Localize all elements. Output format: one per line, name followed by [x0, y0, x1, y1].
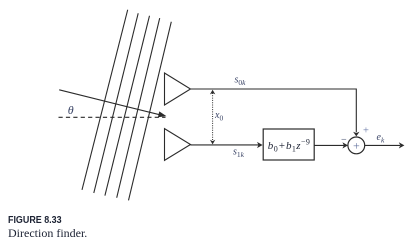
arrowhead into filter box: [257, 142, 263, 148]
wire: bottom rail s1k: [191, 144, 259, 146]
wire: box to summer: [314, 144, 344, 146]
caption text: [8, 226, 87, 241]
svg-text:+: +: [353, 139, 360, 153]
output arrowhead: [399, 142, 405, 148]
svg-text:x0: x0: [214, 110, 223, 123]
arrowhead down: [210, 140, 215, 145]
svg-text:−: −: [341, 134, 347, 145]
wavefront line 4: [117, 18, 160, 198]
summing junction circle: [348, 137, 365, 154]
wavefront line 3: [105, 16, 150, 196]
caption figure number: [8, 214, 62, 226]
incident ray arrowhead: [158, 111, 167, 117]
wire: top rail s0k: [191, 89, 357, 132]
arrowhead into summer top: [353, 132, 359, 137]
incident ray wire: [59, 90, 159, 115]
arrowhead up: [210, 90, 215, 95]
svg-text:+: +: [363, 126, 369, 137]
svg-text:s1k: s1k: [233, 147, 245, 160]
wavefront line 2: [94, 13, 138, 193]
svg-text:ek: ek: [377, 132, 385, 145]
dotted spacing arrow x0 (double-headed): [212, 93, 214, 142]
arrowhead into summer left: [342, 142, 348, 148]
dashed reference line: [59, 116, 166, 118]
svg-text:θ: θ: [68, 103, 74, 117]
wavefront line 1: [82, 10, 128, 190]
wire: summer output: [365, 144, 400, 146]
filter box: [263, 129, 314, 160]
wavefront line 5: [129, 22, 172, 201]
antenna triangle (bottom): [165, 129, 191, 161]
svg-text:s0k: s0k: [235, 74, 247, 87]
antenna triangle (top): [165, 73, 191, 105]
